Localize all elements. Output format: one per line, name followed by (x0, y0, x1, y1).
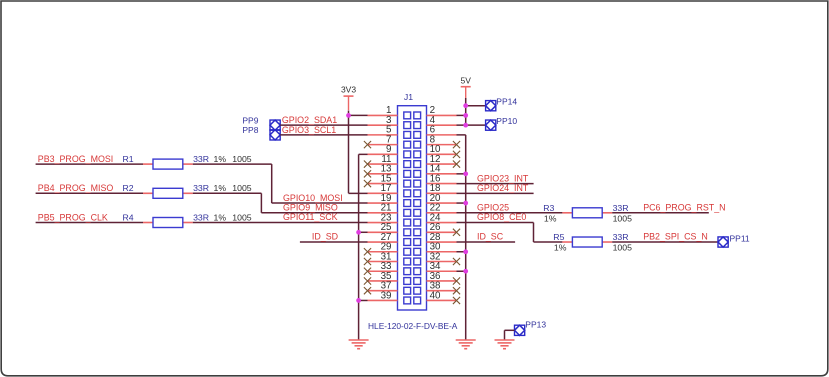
wire GND right vertical (465, 135, 467, 340)
svg-text:1005: 1005 (232, 183, 251, 193)
wire PB4_PROG_MISO left (36, 192, 143, 194)
no-connect X pin 38 (453, 287, 460, 294)
J1 pin 15 (368, 183, 398, 185)
wire R4 to pin (straight) (193, 222, 368, 224)
J1 pin 9 (368, 153, 398, 155)
svg-text:PP9: PP9 (242, 115, 258, 125)
resistor R2 (143, 192, 153, 194)
test point PP10 (486, 120, 496, 130)
svg-text:33R: 33R (193, 154, 209, 164)
power symbol 3V3 (344, 95, 354, 97)
svg-text:1%: 1% (544, 213, 557, 223)
svg-text:PP8: PP8 (242, 125, 258, 135)
J1 pin 40 square (414, 297, 421, 304)
J1 pin 1 (368, 114, 398, 116)
J1 pin 23 (368, 222, 398, 224)
test point PP8 (270, 130, 280, 140)
svg-text:PB4_PROG_MISO: PB4_PROG_MISO (38, 183, 114, 193)
no-connect X pin 13 (364, 170, 371, 177)
J1 pin 4 (427, 124, 457, 126)
no-connect X pin 31 (364, 258, 371, 265)
J1 pin 16 (427, 183, 457, 185)
J1 pin 26 (427, 231, 457, 233)
svg-text:R3: R3 (543, 203, 554, 213)
J1 pin 2 square (414, 112, 421, 119)
J1 pin 39 square (404, 297, 411, 304)
wire 3V3 to pin 1 (349, 114, 368, 116)
svg-text:1%: 1% (214, 183, 227, 193)
J1 pin 22 square (414, 209, 421, 216)
J1 pin 29 (368, 251, 398, 253)
wire pin 25 to GND rail (359, 231, 368, 233)
connector J1 body (398, 106, 427, 310)
svg-text:GPIO8_CE0: GPIO8_CE0 (477, 212, 526, 222)
J1 pin 15 square (404, 180, 411, 187)
J1 pin 22 (427, 212, 457, 214)
J1 pin 17 (368, 192, 398, 194)
J1 pin 26 square (414, 229, 421, 236)
svg-text:39: 39 (381, 290, 392, 301)
junction GND / pin 34 (463, 269, 468, 274)
J1 pin 14 square (414, 170, 421, 177)
test point PP11 (718, 237, 728, 247)
J1 pin 6 square (414, 131, 421, 138)
junction 5V / pin 2 (463, 113, 468, 118)
svg-text:33R: 33R (193, 183, 209, 193)
no-connect X pin 29 (364, 248, 371, 255)
svg-text:PP10: PP10 (496, 116, 517, 126)
no-connect X pin 40 (453, 297, 460, 304)
J1 pin 3 (368, 124, 398, 126)
svg-text:1005: 1005 (613, 243, 632, 253)
J1 pin 28 square (414, 239, 421, 246)
wire pin 39 to GND rail (359, 299, 368, 301)
svg-text:R4: R4 (123, 212, 134, 222)
wire GPIO24_INT from pin 18 (457, 192, 534, 194)
wire pin 34 to GND rail (457, 270, 466, 272)
wire PP13 ground drop (504, 330, 506, 340)
J1 pin 12 square (414, 161, 421, 168)
J1 pin 12 (427, 163, 457, 165)
no-connect X pin 26 (453, 229, 460, 236)
svg-text:33R: 33R (613, 203, 629, 213)
svg-text:GPIO9_MISO: GPIO9_MISO (283, 203, 338, 213)
svg-text:GPIO23_INT: GPIO23_INT (477, 173, 529, 183)
J1 pin 20 (427, 202, 457, 204)
svg-text:R1: R1 (123, 154, 134, 164)
J1 pin 18 (427, 192, 457, 194)
J1 pin 11 square (404, 161, 411, 168)
J1 pin 36 square (414, 278, 421, 285)
J1 pin 6 (427, 134, 457, 136)
J1 pin 17 square (404, 190, 411, 197)
junction 5V / PP14 (463, 103, 468, 108)
no-connect X pin 7 (364, 141, 371, 148)
resistor R4 (143, 222, 153, 224)
svg-text:3V3: 3V3 (341, 85, 356, 95)
J1 pin 35 (368, 280, 398, 282)
svg-text:ID_SC: ID_SC (477, 232, 504, 242)
ground symbol GND left (349, 340, 369, 349)
svg-text:33R: 33R (193, 212, 209, 222)
J1 pin 21 (368, 212, 398, 214)
power symbol 5V (461, 86, 471, 88)
J1 pin 33 (368, 270, 398, 272)
J1 pin 32 square (414, 258, 421, 265)
J1 pin 2 (427, 114, 457, 116)
svg-text:40: 40 (430, 290, 441, 301)
wire GPIO8_CE0 to R5 (534, 241, 563, 243)
J1 pin 34 square (414, 268, 421, 275)
svg-text:GPIO24_INT: GPIO24_INT (477, 183, 529, 193)
no-connect X pin 37 (364, 287, 371, 294)
J1 pin 39 (368, 299, 398, 301)
svg-text:HLE-120-02-F-DV-BE-A: HLE-120-02-F-DV-BE-A (368, 321, 458, 331)
ground symbol GND PP13 (495, 340, 515, 349)
wire PB5_PROG_CLK left (36, 222, 143, 224)
J1 pin 24 square (414, 219, 421, 226)
resistor R3 (562, 212, 572, 214)
svg-text:GPIO25: GPIO25 (477, 203, 509, 213)
no-connect X pin 15 (364, 180, 371, 187)
svg-text:1005: 1005 (613, 213, 632, 223)
J1 pin 23 square (404, 219, 411, 226)
J1 pin 8 square (414, 141, 421, 148)
svg-text:GPIO11_SCK: GPIO11_SCK (283, 212, 338, 222)
J1 pin 30 square (414, 248, 421, 255)
J1 pin 13 square (404, 170, 411, 177)
J1 pin 34 (427, 270, 457, 272)
no-connect X pin 36 (453, 277, 460, 284)
svg-text:PB3_PROG_MOSI: PB3_PROG_MOSI (38, 154, 113, 164)
J1 pin 38 (427, 290, 457, 292)
junction GND / pin 39 (356, 298, 361, 303)
svg-text:5V: 5V (460, 75, 471, 85)
J1 pin 4 square (414, 122, 421, 129)
wire GPIO23_INT from pin 16 (457, 183, 534, 185)
J1 pin 19 square (404, 200, 411, 207)
wire pin 9 to GND rail (359, 153, 368, 155)
junction 3V3 / pin 1 (346, 113, 351, 118)
J1 pin 13 (368, 173, 398, 175)
junction GND / pin 25 (356, 230, 361, 235)
J1 pin 10 (427, 153, 457, 155)
J1 pin 38 square (414, 287, 421, 294)
no-connect X pin 32 (453, 258, 460, 265)
junction GND / pin 30 (463, 249, 468, 254)
wire GPIO8_CE0 from pin 24 (457, 222, 534, 224)
J1 pin 31 square (404, 258, 411, 265)
wire GPIO10_MOSI to pin (272, 202, 368, 204)
svg-text:R5: R5 (553, 232, 564, 242)
J1 pin 33 square (404, 268, 411, 275)
wire PC6_PROG_RST_N from R3 (612, 212, 709, 214)
no-connect X pin 35 (364, 277, 371, 284)
J1 pin 16 square (414, 180, 421, 187)
no-connect X pin 11 (364, 161, 371, 168)
J1 pin 20 square (414, 200, 421, 207)
wire GPIO9_MISO to pin (261, 212, 367, 214)
no-connect X pin 12 (453, 161, 460, 168)
resistor R1 (143, 163, 153, 165)
J1 pin 1 square (404, 112, 411, 119)
J1 pin 25 (368, 231, 398, 233)
test point PP9 (270, 120, 280, 130)
wire 5V to PP14 (466, 105, 486, 107)
wire GPIO3_SCL1 to pin 5 (280, 134, 367, 136)
wire PB2_SPI_CS_N from R5 to PP11 (612, 241, 718, 243)
svg-text:1%: 1% (214, 212, 227, 222)
wire GPIO25 from pin 22 to R3 (457, 212, 563, 214)
wire pin 6 to GND rail (457, 134, 466, 136)
J1 pin 27 square (404, 239, 411, 246)
J1 pin 30 (427, 251, 457, 253)
wire pin 30 to GND rail (457, 251, 466, 253)
svg-text:1%: 1% (214, 154, 227, 164)
no-connect X pin 33 (364, 268, 371, 275)
svg-text:R2: R2 (123, 183, 134, 193)
wire pin 4 to 5V (457, 124, 466, 126)
svg-text:PC6_PROG_RST_N: PC6_PROG_RST_N (643, 203, 725, 213)
junction 5V / pin 4 (463, 123, 468, 128)
J1 pin 8 (427, 144, 457, 146)
J1 pin 25 square (404, 229, 411, 236)
J1 pin 24 (427, 222, 457, 224)
J1 pin 18 square (414, 190, 421, 197)
svg-text:PP13: PP13 (525, 319, 546, 329)
svg-text:ID_SD: ID_SD (312, 232, 338, 242)
wire pin 20 to GND rail (457, 202, 466, 204)
J1 pin 11 (368, 163, 398, 165)
svg-text:J1: J1 (404, 92, 413, 102)
junction GND / pin 14 (463, 171, 468, 176)
J1 pin 5 (368, 134, 398, 136)
wire 5V to PP10 (466, 124, 486, 126)
junction GND / pin 20 (463, 201, 468, 206)
wire pin 14 to GND rail (457, 173, 466, 175)
svg-text:GPIO10_MOSI: GPIO10_MOSI (283, 193, 343, 203)
J1 pin 9 square (404, 151, 411, 158)
wire R1 output elbow (271, 164, 273, 203)
no-connect X pin 10 (453, 151, 460, 158)
J1 pin 7 square (404, 141, 411, 148)
J1 pin 40 (427, 299, 457, 301)
J1 pin 7 (368, 144, 398, 146)
J1 pin 37 square (404, 287, 411, 294)
resistor R5 (562, 241, 572, 243)
wire R2 output elbow (260, 193, 262, 213)
wire 5V vertical (465, 98, 467, 125)
J1 pin 14 (427, 173, 457, 175)
wire pin 2 to 5V (457, 114, 466, 116)
J1 pin 37 (368, 290, 398, 292)
svg-text:PP14: PP14 (496, 97, 517, 107)
J1 pin 32 (427, 261, 457, 263)
J1 pin 19 (368, 202, 398, 204)
J1 pin 36 (427, 280, 457, 282)
J1 pin 28 (427, 241, 457, 243)
J1 pin 3 square (404, 122, 411, 129)
wire GPIO8_CE0 elbow down (533, 223, 535, 242)
wire 3V3 vertical to pin 17 (348, 111, 350, 194)
svg-text:PP11: PP11 (730, 234, 750, 244)
svg-text:33R: 33R (613, 232, 629, 242)
svg-text:PB5_PROG_CLK: PB5_PROG_CLK (38, 212, 108, 222)
svg-text:GPIO3_SCL1: GPIO3_SCL1 (282, 125, 336, 135)
wire GND left vertical (358, 154, 360, 340)
wire R1 output (193, 163, 272, 165)
wire PB3_PROG_MOSI left (36, 163, 143, 165)
J1 pin 5 square (404, 131, 411, 138)
wire R2 output (193, 192, 262, 194)
svg-text:1%: 1% (554, 243, 567, 253)
J1 pin 27 (368, 241, 398, 243)
wire 3V3 to pin 17 (349, 192, 368, 194)
wire PP13 to ground (505, 329, 515, 331)
J1 pin 31 (368, 261, 398, 263)
wire ID_SD to pin 27 (300, 241, 368, 243)
svg-text:1005: 1005 (232, 154, 251, 164)
ground symbol GND right (456, 340, 476, 349)
svg-text:1005: 1005 (232, 212, 251, 222)
J1 pin 29 square (404, 248, 411, 255)
J1 pin 10 square (414, 151, 421, 158)
test point PP14 (486, 101, 496, 111)
wire GPIO2_SDA1 to pin 3 (280, 124, 367, 126)
test point PP13 (515, 325, 525, 335)
svg-text:GPIO2_SDA1: GPIO2_SDA1 (282, 115, 337, 125)
no-connect X pin 8 (453, 141, 460, 148)
J1 pin 35 square (404, 278, 411, 285)
J1 pin 21 square (404, 209, 411, 216)
svg-text:PB2_SPI_CS_N: PB2_SPI_CS_N (643, 232, 708, 242)
wire ID_SC from pin 28 (457, 241, 516, 243)
